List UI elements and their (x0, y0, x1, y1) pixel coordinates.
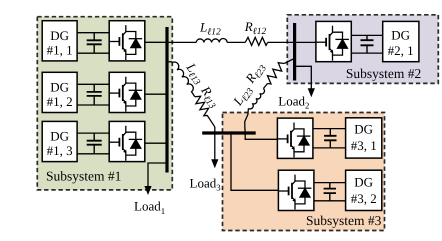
wire U1,3 output to bus 1 (145, 142, 169, 144)
wire R12 to bus 2 (268, 41, 297, 43)
DG source box DG#3,1 (346, 118, 382, 158)
svg-text:DG: DG (354, 174, 373, 189)
DC rail wires DG#1,2 (77, 84, 109, 105)
svg-text:Load2: Load2 (278, 94, 309, 111)
wire bus1 to inductor L12 (169, 41, 197, 43)
resistor R_l23 (268, 63, 285, 84)
capacitor C2,1 (361, 35, 374, 53)
DC rail wires DG#3,1 (313, 129, 346, 148)
svg-text:#1, 3: #1, 3 (47, 143, 73, 158)
wire U1,1 output to bus 1 (145, 41, 169, 43)
bus 3 (202, 131, 256, 134)
resistor R_l13 (192, 94, 219, 129)
svg-text:#3, 1: #3, 1 (351, 138, 377, 153)
inverter box U3,2 (278, 170, 314, 210)
svg-text:DG: DG (50, 28, 69, 43)
svg-text:Load1: Load1 (134, 199, 165, 216)
svg-text:DG: DG (50, 80, 69, 95)
wire bus1 to L13 (167, 61, 172, 63)
capacitor C3,2 (324, 183, 336, 201)
load arrow Load3 (211, 159, 218, 168)
inductor L_l13 (172, 59, 199, 96)
svg-text:DG: DG (391, 27, 410, 42)
svg-text:DG: DG (354, 121, 373, 136)
wire R23 to L23 (263, 84, 267, 89)
load arrow Load2 (308, 88, 315, 97)
DG source box DG#1,1 (42, 21, 77, 61)
svg-text:#1, 1: #1, 1 (47, 42, 73, 57)
wire line 2-3 end through bus3 to inverter U3,1 (245, 133, 277, 140)
bus 2 (293, 23, 296, 81)
resistor R_l12 (245, 37, 267, 45)
wire U1,2 output to bus 1 (145, 93, 169, 95)
svg-text:Subsystem #1: Subsystem #1 (46, 168, 121, 183)
inverter box U1,3 (109, 121, 145, 161)
svg-text:#3, 2: #3, 2 (351, 191, 377, 206)
load arrow Load1 (144, 186, 151, 195)
bus 1 (165, 27, 168, 173)
subsystem #2 boundary box (lavender) (287, 15, 438, 84)
svg-text:Subsystem #2: Subsystem #2 (346, 66, 421, 81)
capacitor C3,1 (324, 129, 336, 148)
wire bus3 to inverter U3,2 (231, 134, 278, 190)
wire line 1-3 through bus3 to Load3 (214, 127, 216, 160)
capacitor C1,3 (87, 133, 102, 154)
inverter box U1,2 (109, 72, 145, 112)
svg-text:#2, 1: #2, 1 (388, 43, 414, 58)
wire L23 to bus 3 (245, 108, 249, 132)
inverter box U2,1 (316, 21, 351, 61)
wire bus2 to inverter U2,1 (296, 41, 316, 43)
DC rail wires DG#1,1 (77, 33, 109, 54)
wire bus2 to R23 (284, 58, 294, 63)
DG source box DG#1,2 (42, 72, 77, 112)
svg-text:Subsystem #3: Subsystem #3 (306, 213, 382, 228)
DG source box DG#1,3 (42, 121, 77, 161)
DC rail wires DG#2,1 (351, 35, 382, 53)
DC rail wires DG#3,2 (314, 183, 346, 201)
subsystem #3 boundary box (orange) (223, 113, 385, 231)
inverter box U1,1 (109, 21, 145, 61)
DG source box DG#2,1 (383, 21, 419, 61)
svg-text:DG: DG (50, 129, 69, 144)
svg-text:#1, 2: #1, 2 (47, 94, 73, 109)
wire bus1 to Load1 (148, 163, 167, 187)
subsystem #1 boundary box (green) (37, 17, 172, 190)
capacitor C1,1 (87, 33, 102, 54)
inductor L_l23 (248, 89, 265, 111)
inverter box U3,1 (277, 118, 313, 158)
DC rail wires DG#1,3 (77, 133, 109, 154)
wire bus2 to Load2 (295, 66, 312, 89)
capacitor C1,2 (87, 84, 102, 105)
inductor L_l12 (196, 39, 227, 43)
wire L12 to R12 (227, 41, 245, 43)
DG source box DG#3,2 (346, 170, 382, 210)
